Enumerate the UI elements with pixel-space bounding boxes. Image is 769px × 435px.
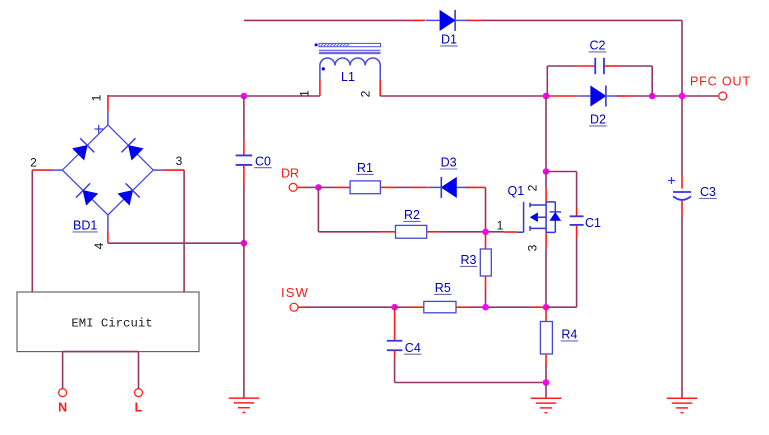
svg-text:1: 1 bbox=[497, 219, 504, 233]
svg-text:Q1: Q1 bbox=[508, 184, 525, 198]
svg-text:EMI Circuit: EMI Circuit bbox=[71, 316, 152, 330]
svg-text:R3: R3 bbox=[461, 253, 477, 267]
svg-text:4: 4 bbox=[92, 242, 106, 249]
svg-text:R4: R4 bbox=[561, 328, 577, 342]
svg-text:1: 1 bbox=[90, 94, 104, 101]
svg-text:C2: C2 bbox=[590, 39, 606, 53]
svg-text:D3: D3 bbox=[441, 156, 457, 170]
svg-text:C0: C0 bbox=[255, 154, 271, 168]
svg-text:R1: R1 bbox=[357, 161, 373, 175]
svg-text:ISW: ISW bbox=[281, 285, 309, 300]
svg-text:L: L bbox=[135, 401, 143, 415]
svg-text:2: 2 bbox=[359, 90, 373, 97]
svg-text:D2: D2 bbox=[590, 113, 606, 127]
svg-text:2: 2 bbox=[526, 184, 540, 191]
svg-text:3: 3 bbox=[176, 154, 183, 168]
svg-text:DR: DR bbox=[281, 167, 299, 181]
svg-text:L1: L1 bbox=[341, 70, 355, 84]
svg-text:1: 1 bbox=[298, 90, 312, 97]
svg-text:N: N bbox=[58, 401, 67, 415]
svg-text:C3: C3 bbox=[700, 185, 716, 199]
svg-text:C1: C1 bbox=[585, 216, 601, 230]
svg-text:2: 2 bbox=[30, 156, 37, 170]
svg-text:D1: D1 bbox=[441, 33, 457, 47]
svg-text:R2: R2 bbox=[404, 208, 420, 222]
svg-text:R5: R5 bbox=[435, 281, 451, 295]
svg-text:PFC OUT: PFC OUT bbox=[690, 75, 751, 89]
svg-text:BD1: BD1 bbox=[73, 219, 97, 233]
svg-text:C4: C4 bbox=[405, 341, 421, 355]
svg-text:3: 3 bbox=[525, 244, 539, 251]
